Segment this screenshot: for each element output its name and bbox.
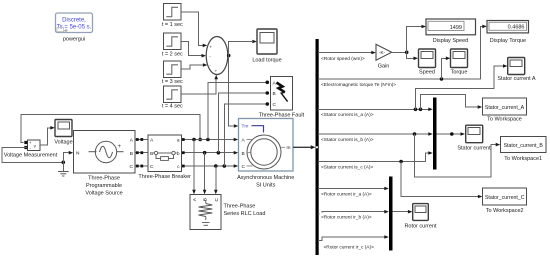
signal label Rotor speed <box>320 54 373 62</box>
powergui block <box>56 13 93 43</box>
voltage measurement block <box>4 140 58 159</box>
to workspace Stator_current_B <box>501 137 547 162</box>
signal label Stator current is_a <box>320 110 378 118</box>
wire phase C down to RLC load C <box>214 166 218 194</box>
wire gain output junction <box>392 51 409 55</box>
wire gain to Speed scope <box>407 52 418 60</box>
wire sum to Load torque scope <box>229 40 257 56</box>
bus selector <box>316 39 319 255</box>
svg-text:Torque: Torque <box>451 69 468 75</box>
svg-text:<Stator current is_a (A)>: <Stator current is_a (A)> <box>321 112 374 118</box>
display Display Torque <box>487 21 529 45</box>
svg-text:Speed: Speed <box>419 69 435 75</box>
svg-text:Display Torque: Display Torque <box>490 38 526 44</box>
node neutral junction <box>62 161 66 165</box>
node load tap B <box>203 151 207 155</box>
wire stator current is_c row to mux <box>318 151 433 161</box>
wire breaker c to machine C <box>182 164 239 168</box>
svg-text:<Electromagnetic torque Te (N*: <Electromagnetic torque Te (N*m)> <box>321 82 396 88</box>
svg-text:B: B <box>130 151 133 157</box>
signal label Stator current is_c <box>320 163 378 171</box>
ground <box>58 162 69 176</box>
step source t=1 sec <box>162 4 183 29</box>
svg-text:powergui: powergui <box>63 37 85 43</box>
to workspace Stator_current_A <box>483 98 527 123</box>
wire stator mux to Stator current scope <box>437 132 466 136</box>
svg-text:<Rotor speed (wm)>: <Rotor speed (wm)> <box>321 56 365 62</box>
wire rotor mux to Rotor current scope <box>393 210 413 214</box>
svg-text:C: C <box>214 197 220 201</box>
svg-text:+: + <box>118 144 122 150</box>
node is_a workspace tap <box>419 108 423 112</box>
scope Rotor current <box>404 204 437 230</box>
svg-text:To Workspace2: To Workspace2 <box>486 208 524 214</box>
svg-text:t = 1 sec: t = 1 sec <box>162 22 183 28</box>
sum block (load torque adder) <box>206 37 228 75</box>
wire voltage measurement to Voltage scope <box>40 126 55 145</box>
scope Speed <box>419 49 436 75</box>
scope Torque <box>451 49 468 75</box>
wire t3 to sum <box>181 63 207 69</box>
wire phase A tap to voltage measurement plus <box>21 115 200 143</box>
svg-text:t = 3 sec: t = 3 sec <box>162 79 183 85</box>
wire rotor speed row to gain <box>318 51 376 55</box>
svg-text:Voltage: Voltage <box>54 140 72 146</box>
svg-text:+: + <box>209 46 212 51</box>
three-phase programmable voltage source <box>74 131 136 197</box>
svg-text:<Rotor current ir_b (A)>: <Rotor current ir_b (A)> <box>321 215 372 221</box>
node torque scope tap <box>440 77 444 81</box>
wire is_b to workspace B <box>415 134 501 177</box>
svg-text:B: B <box>150 151 153 157</box>
signal label Rotor current ir_a <box>320 190 375 198</box>
wire rotor current ir_b row to rotor mux <box>318 210 389 214</box>
scope Stator current <box>457 125 491 151</box>
svg-text:C: C <box>150 164 154 170</box>
wire breaker b to machine B <box>182 151 239 155</box>
svg-text:Stator current: Stator current <box>457 145 491 151</box>
svg-text:SI Units: SI Units <box>256 183 276 189</box>
step source t=2 sec <box>162 33 183 58</box>
wire rotor current ir_c row to rotor mux <box>318 235 389 240</box>
mux stator currents <box>433 98 437 170</box>
svg-text:Rotor current: Rotor current <box>404 224 437 230</box>
wire phase B to fault B <box>218 91 269 153</box>
svg-text:C: C <box>242 164 246 170</box>
wire stator current is_a row to mux <box>318 108 433 112</box>
svg-text:Asynchronous Machine: Asynchronous Machine <box>237 175 294 181</box>
signal label Electromagnetic torque <box>320 80 408 88</box>
three-phase breaker <box>138 135 191 180</box>
to workspace Stator_current_C <box>483 188 527 214</box>
svg-text:Three-Phase: Three-Phase <box>88 176 120 182</box>
wire is_a to Stator current A scope <box>416 64 508 109</box>
wire torque tap to Torque scope <box>442 57 451 80</box>
signal label Rotor current ir_b <box>320 213 375 221</box>
svg-text:m: m <box>287 146 291 151</box>
node fault tap B <box>217 151 221 155</box>
svg-text:B: B <box>273 91 276 97</box>
svg-text:a: a <box>177 139 180 144</box>
svg-text:Stator_current_C: Stator_current_C <box>485 195 525 201</box>
svg-text:t = 2 sec: t = 2 sec <box>162 52 183 58</box>
svg-text:To Workspace1: To Workspace1 <box>504 156 542 162</box>
wire phase A to fault A <box>208 81 269 140</box>
wire phase B down to RLC load B <box>203 153 207 195</box>
svg-text:<Stator current is_b (A)>: <Stator current is_b (A)> <box>321 137 374 143</box>
svg-text:Three-Phase Breaker: Three-Phase Breaker <box>138 174 191 180</box>
signal label Rotor current ir_c <box>322 243 374 251</box>
svg-text:Stator current A: Stator current A <box>497 76 536 82</box>
node fault tap A <box>206 138 210 142</box>
svg-text:Stator_current_B: Stator_current_B <box>504 143 544 149</box>
step source t=4 sec <box>162 86 183 110</box>
wire source C to breaker C <box>135 165 148 168</box>
svg-text:Three-Phase Fault: Three-Phase Fault <box>259 113 305 119</box>
asynchronous machine block <box>237 119 294 189</box>
node load tap C <box>214 164 218 168</box>
scope Stator current A <box>497 58 536 83</box>
svg-text:0.4686: 0.4686 <box>508 25 525 31</box>
svg-text:<Rotor current ir_a (A)>: <Rotor current ir_a (A)> <box>321 191 372 197</box>
wire electromagnetic torque row <box>318 25 487 79</box>
scope Load torque <box>252 29 281 64</box>
wire phase A down to RLC load A <box>192 140 196 195</box>
wire source B to breaker B <box>135 151 148 154</box>
wire gain to Display Speed <box>407 25 426 53</box>
wire t4 to sum bottom <box>181 75 218 94</box>
svg-text:b: b <box>177 151 180 157</box>
mux rotor currents <box>389 177 393 251</box>
svg-text:Gain: Gain <box>378 64 390 70</box>
svg-text:Tm: Tm <box>242 123 249 129</box>
svg-text:C: C <box>130 164 134 170</box>
svg-text:C: C <box>273 102 277 108</box>
wire neutral node to source N input <box>63 151 73 162</box>
wire source A to breaker A <box>135 138 148 141</box>
node stator scope output tap <box>450 132 454 136</box>
node is_b workspace tap <box>413 132 417 136</box>
wire is_a to workspace A <box>421 95 483 110</box>
svg-text:-K-: -K- <box>379 50 386 55</box>
wire stator current is_b row to mux <box>318 132 433 136</box>
svg-text:Load torque: Load torque <box>252 58 281 64</box>
display Display Speed <box>426 19 476 44</box>
wire t2 to sum <box>181 41 206 57</box>
svg-text:To Workspace: To Workspace <box>487 117 522 123</box>
wire breaker a to machine A <box>182 138 239 142</box>
svg-text:Voltage Measurement: Voltage Measurement <box>4 153 58 159</box>
node is_c workspace tap <box>399 160 403 164</box>
svg-text:Stator_current_A: Stator_current_A <box>485 105 525 111</box>
wire t1 to sum <box>181 12 207 47</box>
svg-text:Series RLC Load: Series RLC Load <box>224 211 266 217</box>
svg-text:Discrete,: Discrete, <box>62 18 86 24</box>
signal label Stator current is_b <box>320 135 378 143</box>
svg-text:+: + <box>215 70 218 75</box>
step source t=3 sec <box>162 61 183 85</box>
bus selector input port notch <box>316 146 318 148</box>
svg-text:N: N <box>76 151 80 157</box>
sum output junction node <box>227 54 231 58</box>
svg-text:t = 4 sec: t = 4 sec <box>162 104 183 110</box>
three-phase series RLC load <box>190 195 265 230</box>
svg-text:Three-Phase: Three-Phase <box>224 204 256 210</box>
svg-text:<Rotor current ir_c (A)>: <Rotor current ir_c (A)> <box>324 244 375 250</box>
node is_a scope tap <box>414 108 418 112</box>
svg-text:1499: 1499 <box>450 25 462 31</box>
wire sum to machine Tm input <box>229 56 239 128</box>
node load tap A <box>192 138 196 142</box>
node fault tap C <box>223 164 227 168</box>
svg-text:<Stator current is_c (A)>: <Stator current is_c (A)> <box>321 164 373 170</box>
svg-text:Voltage Source: Voltage Source <box>85 191 122 197</box>
gain block <box>376 44 392 69</box>
scope Voltage <box>54 120 72 146</box>
wire is_c to workspace C <box>401 162 482 199</box>
wire machine m output to bus selector <box>293 145 316 149</box>
svg-text:Display Speed: Display Speed <box>433 38 468 44</box>
three-phase fault block <box>259 77 305 119</box>
svg-text:B: B <box>242 151 245 157</box>
wire voltage measurement minus to neutral node <box>2 148 63 163</box>
wire rotor current ir_a row to rotor mux <box>318 187 389 191</box>
wire phase C to fault C <box>224 102 269 166</box>
node phase A voltage tap <box>198 138 202 142</box>
svg-text:Programmable: Programmable <box>86 183 122 189</box>
